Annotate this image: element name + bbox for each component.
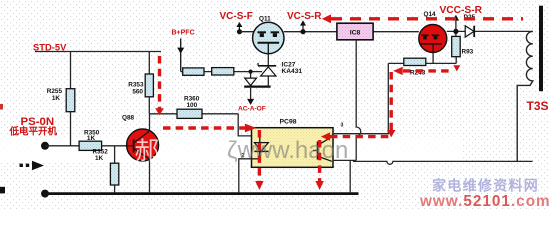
wire B+PFC feed with arrow xyxy=(177,39,184,72)
terminal dot PS-0N input xyxy=(41,142,49,150)
wire to Q11 xyxy=(240,31,259,33)
svg-text:T3S: T3S xyxy=(527,99,549,113)
svg-text:VCC-S-R: VCC-S-R xyxy=(440,5,483,16)
svg-text:1K: 1K xyxy=(52,95,61,102)
arrow AC-A-OF xyxy=(247,99,254,105)
resistor R350 xyxy=(79,129,127,150)
wire R243 rail xyxy=(388,62,456,64)
svg-text:VC-S-R: VC-S-R xyxy=(287,11,322,22)
wire stub to AC-A-OF xyxy=(250,88,252,100)
resistor chain body 1 xyxy=(183,68,204,75)
junction node xyxy=(249,70,253,74)
optocoupler PC98 xyxy=(252,119,334,168)
transistor Q11 xyxy=(253,16,284,54)
red dashed flow into phototransistor xyxy=(330,135,391,138)
resistor R243 xyxy=(404,58,426,76)
wire Q14 source down xyxy=(432,52,434,63)
svg-text:Q88: Q88 xyxy=(122,115,135,122)
svg-text:低电平开机: 低电平开机 xyxy=(9,125,58,137)
arrow stub VCC-S-R xyxy=(453,15,459,34)
resistor R255 xyxy=(47,52,75,146)
diode D25 xyxy=(464,14,476,37)
transformer T3S winding xyxy=(517,31,533,161)
wire secondary return xyxy=(353,161,533,164)
resistor R360 xyxy=(177,96,202,119)
diode clamp to AC-A-OF xyxy=(245,72,257,86)
resistor chain body 2 xyxy=(212,68,234,75)
wire IC8 down with hop xyxy=(356,40,361,161)
red dashed flow from R243 left xyxy=(403,69,452,72)
edge mark red xyxy=(0,104,3,110)
svg-text:1K: 1K xyxy=(95,155,104,162)
transistor Q14 xyxy=(419,11,447,53)
wire STD-5V rail xyxy=(35,51,161,53)
shunt regulator IC27 KA431 xyxy=(258,54,302,87)
IC8 box xyxy=(337,23,419,40)
red dashed flow through LED xyxy=(258,130,261,181)
transformer T3S core xyxy=(539,6,543,92)
resistor R93 xyxy=(452,31,474,63)
svg-text:1K: 1K xyxy=(87,135,96,142)
wire gate chain xyxy=(181,71,262,73)
red dashed flow through phototransistor down xyxy=(318,140,321,181)
wire PS-0N to R350 xyxy=(45,145,79,147)
arrow stub VC-S-F xyxy=(236,22,242,34)
wire down to PC98 pin1 xyxy=(238,114,260,136)
resistor R352 xyxy=(93,146,119,193)
arrow stub VC-S-R xyxy=(300,20,306,34)
svg-text:Q11: Q11 xyxy=(259,16,271,23)
wire Q11 right xyxy=(284,31,337,33)
svg-text:郝: 郝 xyxy=(135,137,160,165)
red arrow down from R93 xyxy=(453,65,460,71)
PS-0N dashed input arrow xyxy=(20,161,45,170)
svg-text:100: 100 xyxy=(187,102,198,109)
edge mark black xyxy=(0,187,5,194)
terminal dot ground input xyxy=(41,190,49,198)
svg-text:R353: R353 xyxy=(128,82,144,89)
svg-text:B+PFC: B+PFC xyxy=(172,30,195,37)
svg-text:R93: R93 xyxy=(462,49,474,56)
common cathode bar xyxy=(244,85,270,87)
transformer T3S primary wire xyxy=(475,30,533,32)
svg-text:3: 3 xyxy=(341,122,344,128)
wire PC98 pin3 xyxy=(333,63,388,133)
red dashed flow STD-5V down xyxy=(158,56,161,109)
transistor Q88 xyxy=(122,114,159,193)
red dashed flow top VC-S-R xyxy=(331,17,523,20)
svg-text:560: 560 xyxy=(132,89,143,96)
red dashed flow down to pin3 xyxy=(390,72,393,130)
wire Q14 drain to D25 xyxy=(447,30,466,32)
svg-text:家电维修资料网: 家电维修资料网 xyxy=(432,178,539,194)
svg-text:R255: R255 xyxy=(47,88,63,95)
svg-text:KA431: KA431 xyxy=(282,68,303,75)
svg-text:ζwww.haon: ζwww.haon xyxy=(227,137,348,164)
svg-text:Q14: Q14 xyxy=(424,11,437,18)
red dashed flow to PC98 pin1 xyxy=(163,126,245,129)
watermark band xyxy=(0,137,462,163)
svg-text:www.52101.com: www.52101.com xyxy=(419,193,549,209)
wire Q88 collector to R360 xyxy=(150,113,239,115)
svg-text:AC-A-OF: AC-A-OF xyxy=(238,105,266,112)
wire PC98 pin4 xyxy=(333,159,356,161)
svg-text:STD-5V: STD-5V xyxy=(33,41,67,52)
wire pin4 to bus xyxy=(349,160,351,192)
wire ground bus xyxy=(45,192,359,195)
svg-text:VC-S-F: VC-S-F xyxy=(220,11,253,22)
wire PC98 pin2 to bus xyxy=(239,159,260,193)
svg-text:IC8: IC8 xyxy=(350,30,361,37)
resistor R353 xyxy=(128,52,153,114)
svg-text:PC98: PC98 xyxy=(280,119,297,126)
